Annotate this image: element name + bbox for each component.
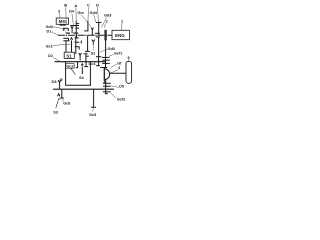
svg-text:D4: D4 <box>69 10 75 14</box>
svg-text:Gc2: Gc2 <box>66 65 73 69</box>
svg-text:Gc1: Gc1 <box>46 45 53 49</box>
svg-text:Gm: Gm <box>77 11 84 15</box>
svg-text:D5: D5 <box>119 85 124 89</box>
svg-text:S2: S2 <box>91 51 96 55</box>
svg-text:S4: S4 <box>79 76 85 80</box>
svg-text:D1: D1 <box>47 30 52 34</box>
svg-text:S1: S1 <box>66 54 72 59</box>
svg-text:4: 4 <box>118 66 121 70</box>
svg-text:Gcf1: Gcf1 <box>114 52 122 56</box>
svg-text:Gd3: Gd3 <box>108 47 115 51</box>
svg-text:A: A <box>74 3 77 8</box>
svg-text:S3: S3 <box>53 110 58 114</box>
svg-text:Gcf2: Gcf2 <box>117 98 125 102</box>
svg-text:D: D <box>96 3 99 8</box>
svg-text:C: C <box>87 3 90 8</box>
svg-text:Gc5: Gc5 <box>89 113 96 117</box>
svg-text:D2: D2 <box>48 54 53 58</box>
svg-text:Gd1: Gd1 <box>46 25 53 29</box>
svg-text:Gc4: Gc4 <box>88 62 96 66</box>
svg-text:1: 1 <box>121 19 123 23</box>
svg-text:B: B <box>64 3 67 8</box>
svg-text:Gd4: Gd4 <box>90 11 98 15</box>
svg-text:3: 3 <box>58 9 60 13</box>
svg-text:5: 5 <box>127 56 129 60</box>
svg-text:Gf: Gf <box>117 62 122 66</box>
svg-text:2: 2 <box>106 19 108 23</box>
svg-text:Gc6: Gc6 <box>63 102 70 106</box>
svg-text:Gd3: Gd3 <box>104 14 111 18</box>
svg-text:ENG: ENG <box>115 33 125 38</box>
svg-text:D3: D3 <box>52 80 57 84</box>
svg-text:MG: MG <box>59 19 67 24</box>
